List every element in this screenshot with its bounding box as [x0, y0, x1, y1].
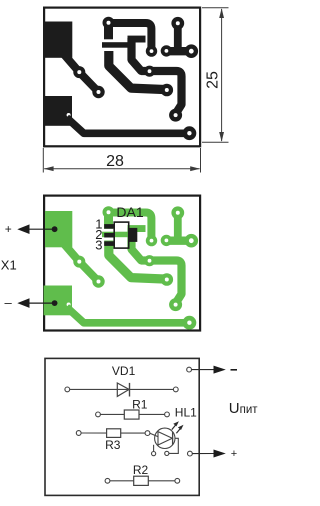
DA1 pin 1	[104, 224, 114, 229]
LED HL1	[155, 428, 175, 448]
terminal minus output	[187, 367, 192, 372]
label − (output)	[231, 369, 238, 371]
copper traces (black)	[44, 17, 199, 140]
wire to minus arrow	[192, 369, 215, 371]
DA1 tab	[129, 228, 138, 242]
copper traces (green, seen through board)	[44, 206, 199, 329]
DA1 pin 3	[104, 241, 114, 246]
terminal VD1 left	[65, 387, 70, 392]
terminal R3 left	[76, 431, 81, 436]
terminal R2 right	[175, 478, 180, 483]
resistor R2	[134, 476, 149, 485]
dimension extension line bottom-right2	[200, 148, 202, 173]
dimension extension line top-right	[202, 7, 229, 9]
wire VD1 row	[70, 388, 174, 390]
svg-text:+: +	[231, 448, 237, 460]
board outline (placement drawing)	[45, 358, 199, 495]
svg-text:–: –	[5, 295, 13, 310]
X1 wire + terminal (plus)	[26, 228, 55, 230]
dimension line 25	[221, 9, 223, 141]
board outline (copper side)	[44, 8, 200, 147]
dimension extension line bottom-right	[202, 141, 229, 143]
svg-text:VD1: VD1	[112, 364, 136, 378]
svg-text:R2: R2	[133, 463, 149, 477]
resistor R1	[124, 410, 139, 419]
wire R2 row	[110, 480, 175, 482]
svg-text:28: 28	[106, 153, 124, 170]
terminal LED left	[152, 452, 156, 456]
DA1 pin 2	[104, 233, 114, 238]
terminal R2 left	[105, 478, 110, 483]
LED arrows	[172, 423, 177, 429]
svg-text:3: 3	[95, 237, 102, 252]
terminal R1 right	[165, 412, 170, 417]
svg-text:+: +	[5, 222, 12, 236]
LED cathode route	[169, 438, 178, 453]
terminal LED cathode	[165, 451, 169, 455]
dimension extension line bottom-left	[42, 148, 44, 173]
terminal plus output	[188, 451, 193, 456]
terminal VD1 right	[173, 387, 178, 392]
wire R1 row	[100, 413, 164, 415]
svg-text:Uпит: Uпит	[229, 400, 258, 417]
terminal R1 left	[96, 412, 101, 417]
LED left leg	[153, 445, 155, 452]
diode VD1	[117, 383, 129, 396]
dimension line 28	[44, 168, 199, 170]
DA1 body	[114, 222, 129, 248]
resistor R3	[107, 429, 121, 438]
wire to plus arrow	[192, 453, 214, 455]
X1 wire + terminal (minus)	[26, 302, 55, 304]
svg-text:R3: R3	[105, 438, 121, 452]
svg-text:DA1: DA1	[116, 204, 143, 220]
svg-text:HL1: HL1	[175, 406, 197, 420]
board outline (component side)	[44, 196, 200, 331]
wire R3 row	[81, 432, 145, 434]
svg-text:25: 25	[205, 71, 222, 89]
terminal R3 right	[145, 431, 150, 436]
svg-text:X1: X1	[1, 257, 17, 272]
